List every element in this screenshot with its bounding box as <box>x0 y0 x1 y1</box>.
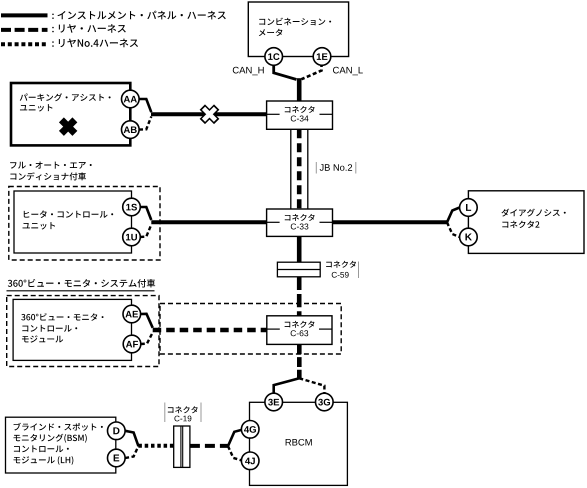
legend label instrument panel harness <box>52 11 226 20</box>
diagnosis connector 2 label line2 <box>502 221 539 228</box>
wire from AB to junction (dashed) <box>139 117 151 130</box>
terminal 4J <box>241 452 259 470</box>
connector C-33 right pin tick <box>320 221 333 223</box>
connector C-59 label C-59 <box>332 272 349 278</box>
wire split to 3G (dashed) <box>299 378 324 393</box>
connector C-33 left pin tick <box>267 221 280 223</box>
wire junction to 4J (dashed) <box>228 446 242 460</box>
combination meter label line1 <box>259 18 331 26</box>
JB No.2 right tick <box>355 162 357 174</box>
wire trunk C-34 to C-33 (dashed) <box>297 129 302 209</box>
parking assist label line2 <box>20 104 53 111</box>
connector C-19 label コネクタ <box>168 406 198 413</box>
connector C-34 right pin tick <box>320 113 333 115</box>
wire from AA to junction <box>139 99 151 112</box>
heater control unit box <box>14 191 132 253</box>
wire heater junction to C-33 <box>151 220 266 224</box>
terminal 1S <box>123 198 141 216</box>
wire C-19 to RBCM junction (dashed) <box>190 444 228 448</box>
underline of 360 view label <box>7 290 155 292</box>
wire trunk junction to C-34 <box>297 78 302 102</box>
wire junction to L <box>447 208 460 223</box>
rear harness dashed frame around C-63 <box>160 304 341 355</box>
wire from AF to junction (dashed) <box>141 332 153 344</box>
JB No.2 conduit right rail <box>307 129 309 209</box>
BSM label line2 <box>14 434 87 443</box>
legend solid line (instrument panel harness) <box>1 13 48 17</box>
wire CAN_H from 1C to junction <box>274 63 297 80</box>
wire 360 module to C-63 (dashed) <box>153 328 267 332</box>
heater control label line2 <box>23 222 56 229</box>
terminal 3E <box>265 393 283 411</box>
label JB No.2 <box>320 164 352 171</box>
connector C-33 label C-33 <box>291 223 309 229</box>
label RBCM <box>286 439 312 446</box>
terminal 1U <box>123 228 141 246</box>
terminal D <box>108 422 126 440</box>
360 view dashed frame left <box>7 296 159 367</box>
terminal 4G <box>241 421 259 439</box>
terminal K <box>460 228 478 246</box>
wire trunk C-59 to C-63 (dashed) <box>297 277 302 316</box>
label full auto air conditioner line2 <box>10 172 86 180</box>
terminal 3G <box>316 393 334 411</box>
wire trunk C-33 to C-59 <box>297 236 302 262</box>
360 view monitor control module box <box>13 299 131 360</box>
wire junction to 4G <box>228 430 242 446</box>
connector C-63 label C-63 <box>291 330 309 336</box>
terminal 1E <box>313 48 331 66</box>
terminal L <box>460 199 478 217</box>
label CAN_H <box>233 67 264 76</box>
JB No.2 conduit left rail <box>290 129 292 209</box>
legend label rear harness <box>52 24 126 33</box>
wire split to 3E <box>274 378 300 393</box>
wire BSM junction to C-19 (dotted) <box>138 444 173 448</box>
label 360 view monitor system <box>8 279 155 288</box>
wire parking assist to C-34 <box>151 112 267 116</box>
connector C-63 left pin tick <box>267 328 280 330</box>
wire C-33 to diagnosis junction <box>333 220 448 224</box>
connector C-34 left pin tick <box>267 113 280 115</box>
wire from D to junction <box>125 431 138 446</box>
wire junction to K (dashed) <box>447 222 460 237</box>
connector C-63 label コネクタ <box>285 321 315 328</box>
C-19 label right tick <box>200 403 202 423</box>
disconnect X symbol on wire <box>202 107 216 121</box>
connector C-63 box <box>267 316 332 345</box>
JB No.2 left tick <box>315 162 317 174</box>
diagnosis connector 2 label line1 <box>501 209 565 217</box>
full auto A/C dashed frame <box>9 187 160 261</box>
wire from AE to junction <box>141 314 153 328</box>
connector C-34 label コネクタ <box>285 106 315 113</box>
connector C-19 box <box>174 426 190 467</box>
360 module label line2 <box>22 325 77 332</box>
connector C-33 label コネクタ <box>285 214 315 221</box>
connector C-63 right pin tick <box>319 328 332 330</box>
wire from 1U to junction (dashed) <box>140 225 151 237</box>
combination meter box <box>248 2 348 57</box>
connector C-19 label C-19 <box>174 416 191 422</box>
terminal 1C <box>265 48 283 66</box>
BSM control module box <box>6 417 116 473</box>
label CAN_L <box>333 67 363 76</box>
360 module label line1 <box>21 313 103 321</box>
legend label rear No.4 harness <box>52 39 138 48</box>
heater control label line1 <box>24 210 113 218</box>
legend dashed line (rear harness) <box>1 28 48 32</box>
C-19 label left tick <box>164 403 166 423</box>
BSM label line4 <box>14 456 74 465</box>
connector C-34 box <box>267 101 333 129</box>
C-59 label right tick <box>358 262 360 279</box>
terminal AF <box>123 335 141 353</box>
wire trunk C-63 to RBCM split (dashed) <box>297 344 302 378</box>
terminal AA <box>122 90 140 108</box>
RBCM box <box>250 402 348 485</box>
diagnosis connector 2 box <box>468 191 584 254</box>
combination meter label line2 <box>259 29 283 36</box>
connector C-59 box <box>277 262 320 277</box>
legend dotted line (rear No.4 harness) <box>1 42 48 46</box>
wire from E to junction (dashed) <box>125 446 138 458</box>
terminal AE <box>123 305 141 323</box>
connector C-33 box <box>267 209 333 236</box>
BSM label line1 <box>14 423 103 431</box>
label full auto air conditioner line1 <box>10 162 92 169</box>
connector C-34 label C-34 <box>291 115 309 121</box>
BSM label line3 <box>14 445 69 452</box>
wire from 1S to junction <box>140 207 151 220</box>
terminal AB <box>122 121 140 139</box>
wire CAN_L from 1E to junction (dashed) <box>302 63 322 79</box>
connector C-59 label コネクタ <box>326 261 356 268</box>
360 module label line3 <box>22 335 63 342</box>
parking assist unit box <box>11 83 130 145</box>
parking assist label line1 <box>20 93 111 101</box>
bold X mark inside parking assist box <box>61 120 75 133</box>
terminal E <box>108 449 126 467</box>
